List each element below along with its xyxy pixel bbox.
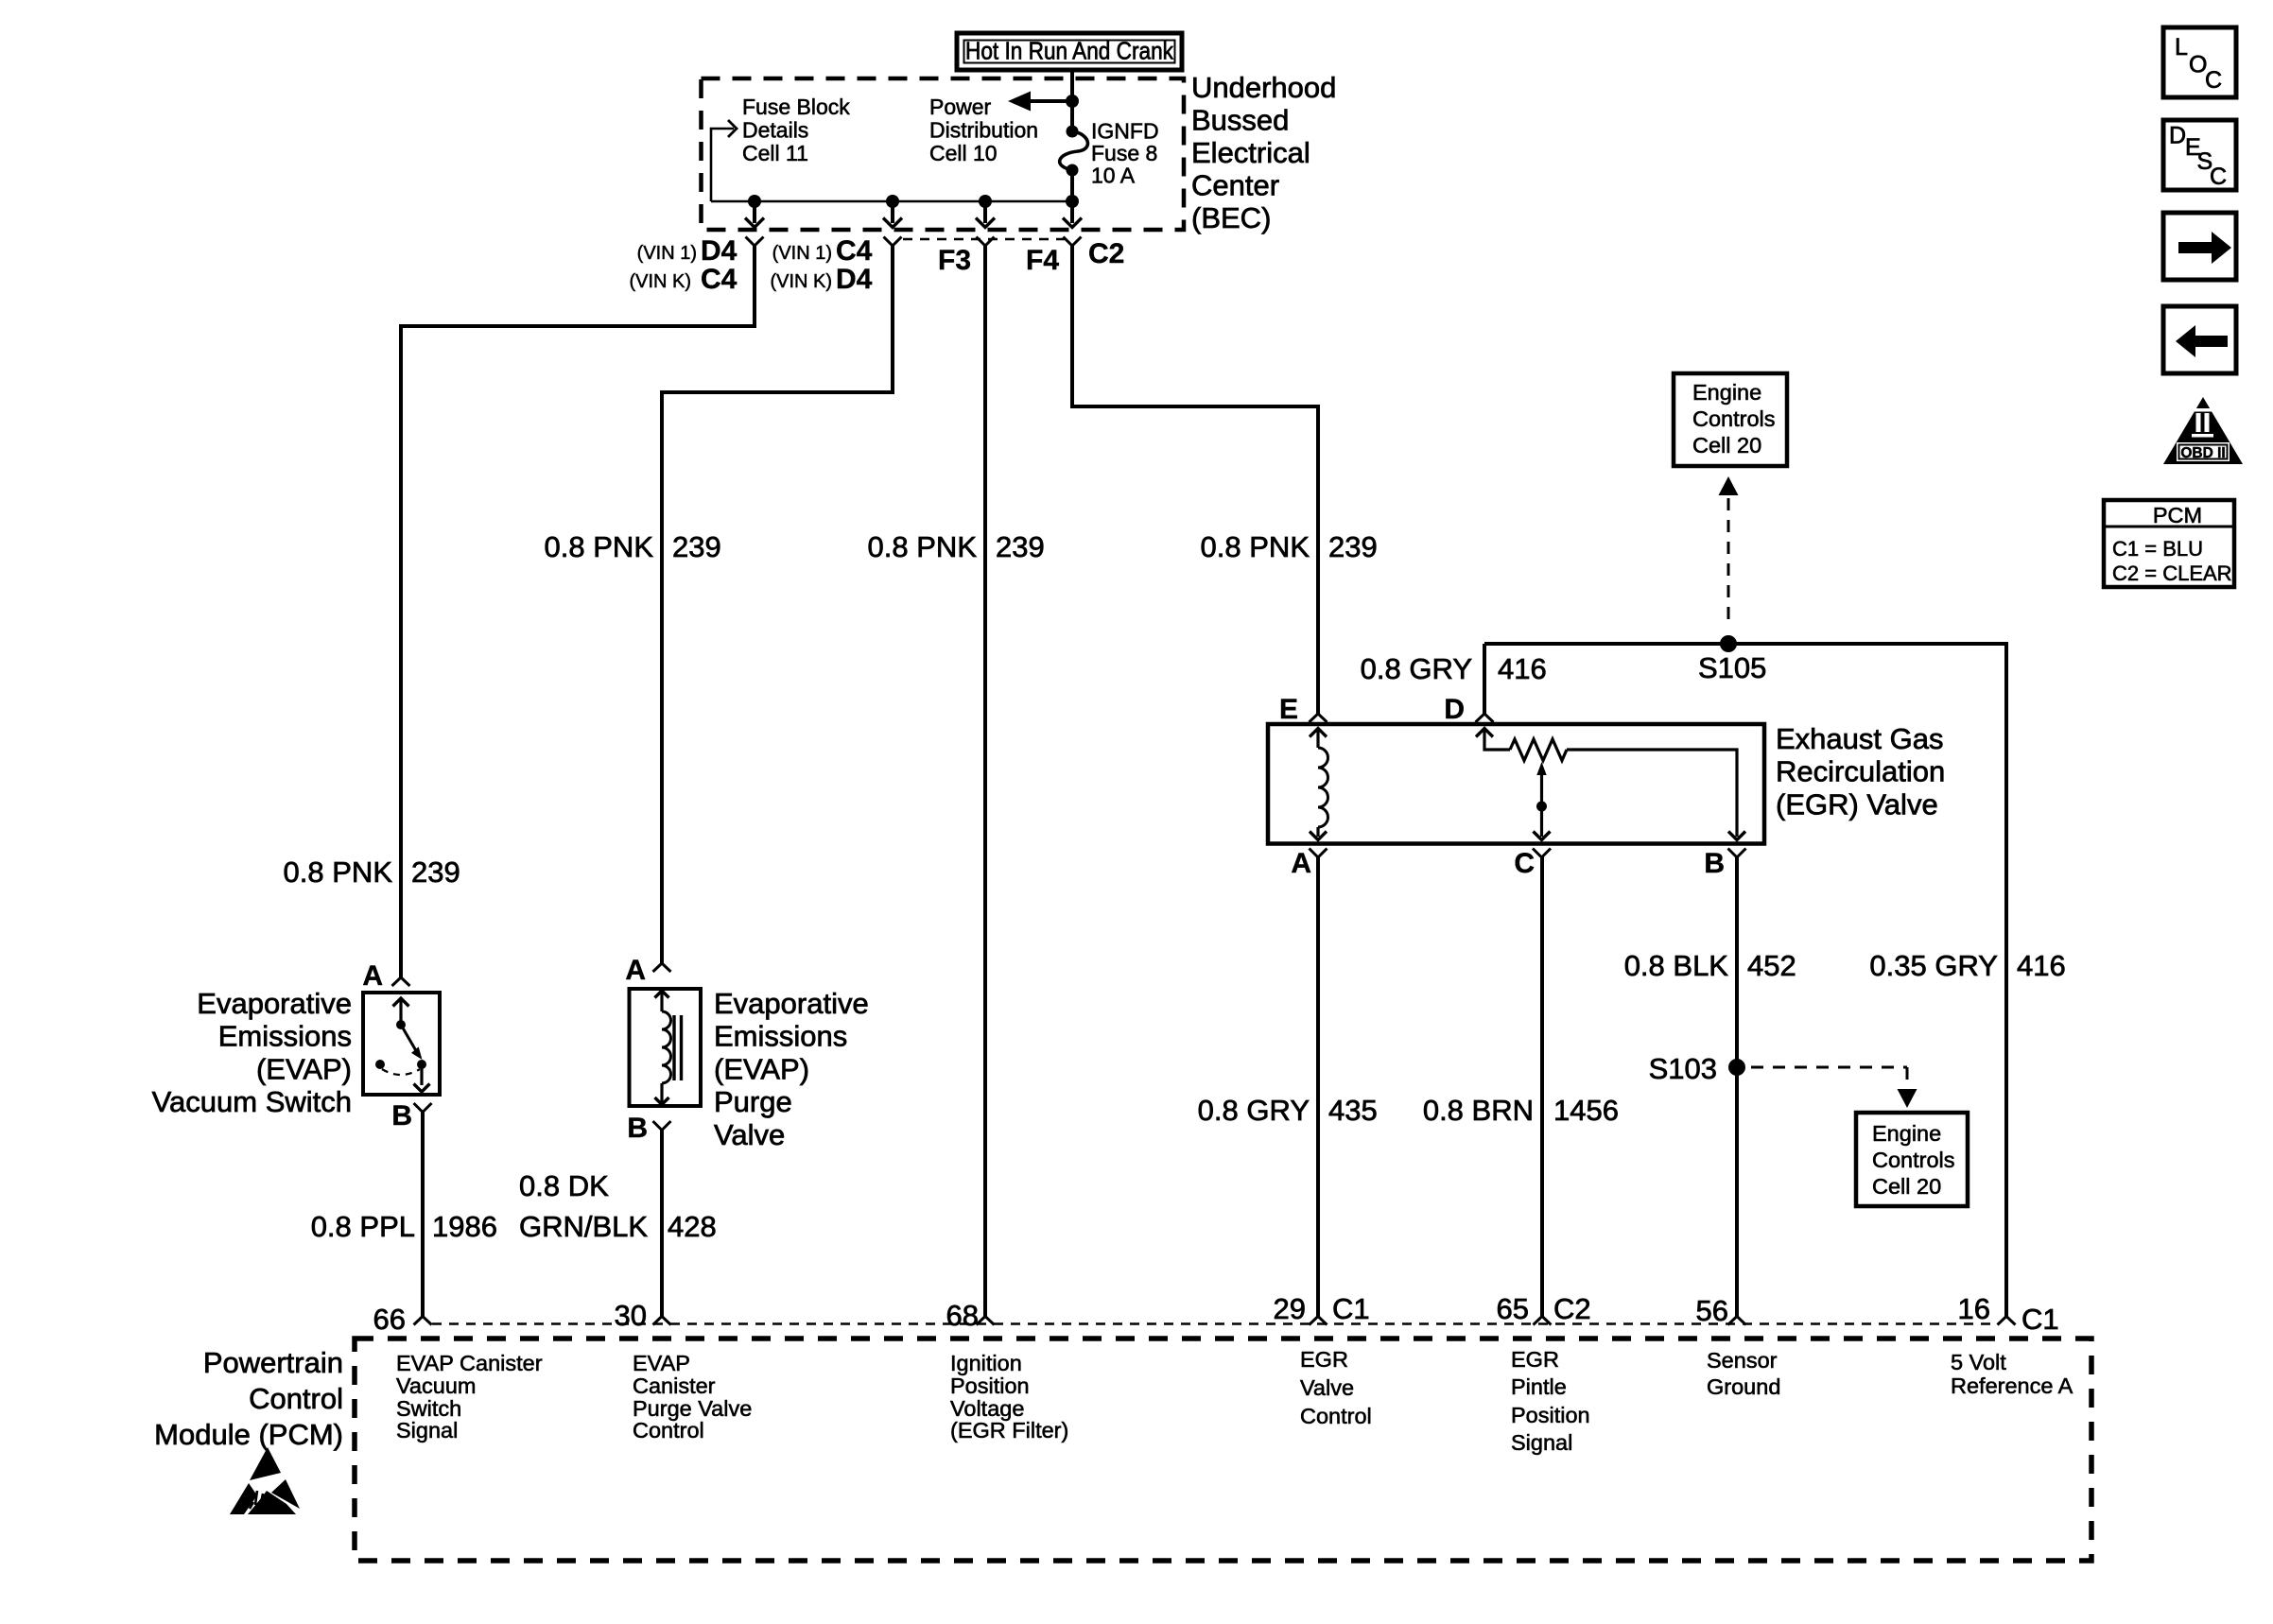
svg-text:Position: Position: [950, 1373, 1030, 1398]
svg-text:0.8 PPL: 0.8 PPL: [311, 1210, 415, 1243]
svg-text:0.8 BLK: 0.8 BLK: [1624, 949, 1729, 982]
svg-text:(EGR) Valve: (EGR) Valve: [1776, 787, 1938, 821]
svg-text:Position: Position: [1511, 1403, 1590, 1427]
svg-text:EVAP: EVAP: [633, 1351, 690, 1375]
svg-text:Emissions: Emissions: [714, 1020, 847, 1053]
svg-text:(EVAP): (EVAP): [714, 1052, 809, 1085]
svg-text:Details: Details: [742, 118, 808, 143]
svg-text:(VIN 1): (VIN 1): [772, 243, 832, 264]
svg-text:Valve: Valve: [714, 1118, 785, 1151]
svg-text:C4: C4: [701, 264, 737, 295]
svg-text:30: 30: [615, 1299, 647, 1332]
svg-text:Electrical: Electrical: [1191, 136, 1310, 169]
svg-text:Fuse Block: Fuse Block: [742, 95, 850, 119]
svg-text:F3: F3: [938, 245, 971, 276]
svg-text:E: E: [1279, 694, 1298, 725]
svg-text:Exhaust Gas: Exhaust Gas: [1776, 722, 1943, 755]
svg-text:D4: D4: [836, 264, 873, 295]
svg-text:Underhood: Underhood: [1191, 71, 1336, 104]
svg-text:Pintle: Pintle: [1511, 1374, 1567, 1399]
svg-text:428: 428: [668, 1210, 717, 1243]
svg-text:C2: C2: [1088, 238, 1124, 269]
svg-text:416: 416: [2017, 949, 2066, 982]
svg-text:C4: C4: [836, 235, 873, 267]
svg-text:10 A: 10 A: [1091, 164, 1136, 188]
svg-text:0.8 PNK: 0.8 PNK: [868, 530, 978, 563]
svg-text:C1: C1: [1332, 1292, 1370, 1325]
svg-text:B: B: [627, 1113, 648, 1144]
svg-text:D: D: [2169, 123, 2186, 149]
svg-text:Center: Center: [1191, 169, 1279, 202]
svg-text:Hot In Run And Crank: Hot In Run And Crank: [965, 37, 1174, 65]
svg-text:Engine: Engine: [1692, 380, 1761, 405]
svg-text:C: C: [2210, 164, 2227, 190]
svg-text:EVAP Canister: EVAP Canister: [396, 1351, 543, 1375]
svg-text:OBD II: OBD II: [2180, 445, 2225, 461]
svg-text:65: 65: [1497, 1292, 1529, 1325]
svg-text:C: C: [2205, 67, 2222, 94]
svg-text:Vacuum: Vacuum: [396, 1373, 476, 1398]
svg-text:Recirculation: Recirculation: [1776, 755, 1945, 788]
svg-text:Signal: Signal: [396, 1418, 458, 1443]
svg-text:C1: C1: [2021, 1303, 2059, 1336]
svg-text:(EGR Filter): (EGR Filter): [950, 1418, 1068, 1443]
svg-text:239: 239: [411, 855, 460, 889]
svg-text:Engine: Engine: [1872, 1121, 1941, 1146]
svg-text:452: 452: [1747, 949, 1796, 982]
svg-text:C: C: [1514, 848, 1535, 879]
svg-text:29: 29: [1274, 1292, 1306, 1325]
svg-text:Cell 11: Cell 11: [742, 141, 808, 165]
svg-text:Power: Power: [929, 95, 992, 119]
svg-text:239: 239: [996, 530, 1045, 563]
svg-text:16: 16: [1958, 1292, 1990, 1325]
svg-text:Distribution: Distribution: [929, 118, 1038, 143]
svg-text:EGR: EGR: [1300, 1347, 1348, 1372]
svg-text:5 Volt: 5 Volt: [1951, 1350, 2006, 1374]
svg-text:0.8 BRN: 0.8 BRN: [1423, 1094, 1534, 1127]
svg-text:0.8 DK: 0.8 DK: [519, 1169, 609, 1202]
svg-text:Canister: Canister: [633, 1373, 716, 1398]
svg-text:Controls: Controls: [1692, 406, 1776, 431]
svg-text:Reference A: Reference A: [1951, 1373, 2073, 1398]
svg-text:PCM: PCM: [2153, 503, 2202, 527]
svg-text:S103: S103: [1649, 1052, 1717, 1085]
svg-text:(EVAP): (EVAP): [256, 1052, 352, 1085]
svg-text:C1 = BLU: C1 = BLU: [2112, 537, 2203, 561]
svg-text:A: A: [625, 955, 646, 986]
svg-text:Controls: Controls: [1872, 1148, 1955, 1172]
svg-text:Evaporative: Evaporative: [197, 987, 352, 1020]
svg-text:1456: 1456: [1553, 1094, 1619, 1127]
svg-text:Cell 20: Cell 20: [1872, 1174, 1941, 1199]
svg-text:0.8 GRY: 0.8 GRY: [1361, 652, 1472, 685]
svg-text:Fuse 8: Fuse 8: [1091, 141, 1157, 165]
svg-text:Powertrain: Powertrain: [203, 1346, 343, 1379]
svg-text:Purge: Purge: [714, 1085, 792, 1118]
svg-text:1986: 1986: [432, 1210, 497, 1243]
svg-text:C2: C2: [1553, 1292, 1591, 1325]
svg-text:D4: D4: [701, 235, 737, 267]
svg-text:Control: Control: [249, 1382, 343, 1415]
svg-text:435: 435: [1328, 1094, 1378, 1127]
svg-text:Vacuum Switch: Vacuum Switch: [152, 1085, 352, 1118]
svg-text:D: D: [1444, 694, 1465, 725]
svg-text:Valve: Valve: [1300, 1375, 1354, 1400]
svg-text:C2 = CLEAR: C2 = CLEAR: [2112, 561, 2232, 585]
svg-text:Module (PCM): Module (PCM): [154, 1418, 343, 1451]
svg-text:EGR: EGR: [1511, 1347, 1559, 1372]
svg-text:IGNFD: IGNFD: [1091, 119, 1159, 144]
svg-text:68: 68: [946, 1299, 979, 1332]
svg-text:Cell 10: Cell 10: [929, 141, 998, 165]
svg-text:66: 66: [373, 1303, 406, 1336]
svg-text:0.8 PNK: 0.8 PNK: [545, 530, 654, 563]
svg-text:Control: Control: [1300, 1404, 1372, 1428]
svg-text:Cell 20: Cell 20: [1692, 433, 1761, 458]
svg-text:0.8 GRY: 0.8 GRY: [1198, 1094, 1310, 1127]
svg-text:(BEC): (BEC): [1191, 201, 1271, 234]
svg-text:A: A: [1291, 848, 1311, 879]
svg-text:Control: Control: [633, 1418, 704, 1443]
svg-text:GRN/BLK: GRN/BLK: [519, 1210, 648, 1243]
svg-text:0.35 GRY: 0.35 GRY: [1869, 949, 1998, 982]
svg-text:A: A: [362, 960, 383, 992]
svg-text:0.8 PNK: 0.8 PNK: [284, 855, 393, 889]
svg-text:Emissions: Emissions: [218, 1020, 352, 1053]
svg-text:Ignition: Ignition: [950, 1351, 1022, 1375]
svg-text:Bussed: Bussed: [1191, 104, 1289, 137]
svg-text:56: 56: [1696, 1294, 1728, 1327]
svg-text:F4: F4: [1026, 245, 1059, 276]
svg-text:B: B: [1704, 848, 1725, 879]
svg-text:Evaporative: Evaporative: [714, 987, 869, 1020]
svg-text:Ground: Ground: [1707, 1374, 1780, 1399]
svg-text:(VIN K): (VIN K): [629, 271, 691, 292]
svg-text:Signal: Signal: [1511, 1430, 1572, 1455]
svg-text:239: 239: [1328, 530, 1378, 563]
svg-text:L: L: [2175, 34, 2188, 60]
svg-text:(VIN 1): (VIN 1): [637, 243, 697, 264]
svg-text:(VIN K): (VIN K): [770, 271, 832, 292]
svg-text:B: B: [391, 1100, 412, 1132]
svg-text:416: 416: [1498, 652, 1547, 685]
svg-text:0.8 PNK: 0.8 PNK: [1201, 530, 1310, 563]
svg-text:S105: S105: [1698, 651, 1766, 684]
svg-text:239: 239: [672, 530, 721, 563]
svg-text:Sensor: Sensor: [1707, 1348, 1778, 1373]
